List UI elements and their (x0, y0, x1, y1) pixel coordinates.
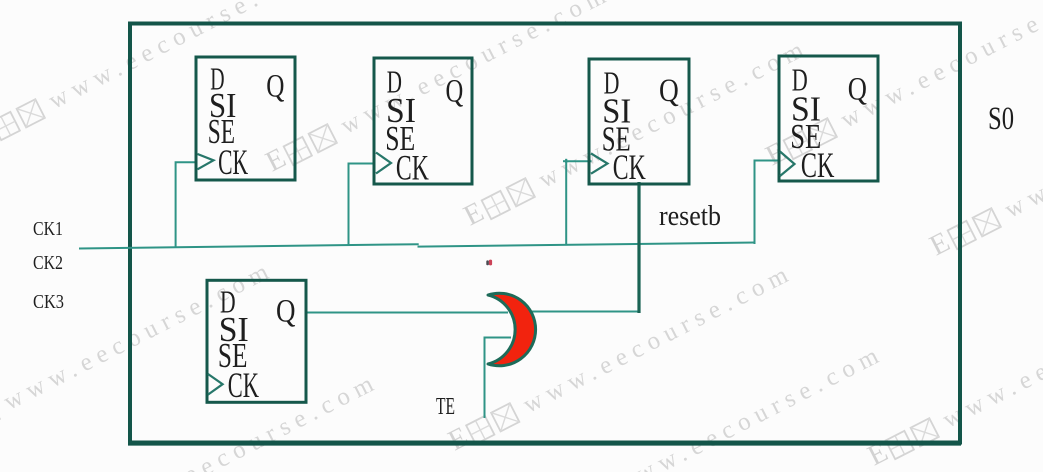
svg-text:CK: CK (228, 365, 259, 405)
svg-text:S0: S0 (988, 101, 1014, 137)
svg-text:Q: Q (848, 72, 867, 108)
flip-flop U3 (589, 59, 689, 187)
wire U3 clock branch (563, 159, 592, 245)
wire U1 clock branch (176, 162, 198, 247)
wire U5 Q output to gate (306, 312, 508, 314)
label TE (436, 394, 455, 420)
svg-text:CK2: CK2 (33, 252, 63, 274)
svg-text:CK: CK (801, 145, 835, 185)
flip-flop U1 (196, 57, 295, 182)
gate G1 crescent (488, 293, 536, 366)
svg-text:Q: Q (446, 74, 464, 110)
flip-flop U2 (374, 58, 472, 187)
svg-text:Q: Q (659, 73, 679, 109)
label resetb (659, 201, 721, 232)
wire CK distribution line (79, 243, 756, 249)
label S0 (988, 101, 1014, 137)
red mark 20 (486, 260, 492, 266)
flip-flop U4 (779, 56, 878, 185)
svg-text:CK: CK (613, 147, 646, 187)
svg-text:CK: CK (218, 142, 248, 182)
boundary box (128, 24, 961, 445)
svg-text:Q: Q (276, 294, 296, 330)
svg-text:TE: TE (436, 394, 455, 420)
svg-text:resetb: resetb (659, 201, 721, 232)
svg-text:CK: CK (396, 147, 429, 187)
svg-text:CK3: CK3 (33, 291, 64, 313)
wire TE input (485, 338, 512, 419)
svg-text:CK1: CK1 (33, 218, 63, 240)
wire gate output to U3 bottom (528, 182, 641, 313)
wire U4 clock branch (755, 161, 781, 245)
label CK3 (33, 291, 64, 313)
flip-flop U5 (207, 280, 306, 405)
label CK1 (33, 218, 63, 240)
wire U2 clock branch (349, 164, 376, 246)
svg-text:Q: Q (266, 69, 284, 105)
label CK2 (33, 252, 63, 274)
